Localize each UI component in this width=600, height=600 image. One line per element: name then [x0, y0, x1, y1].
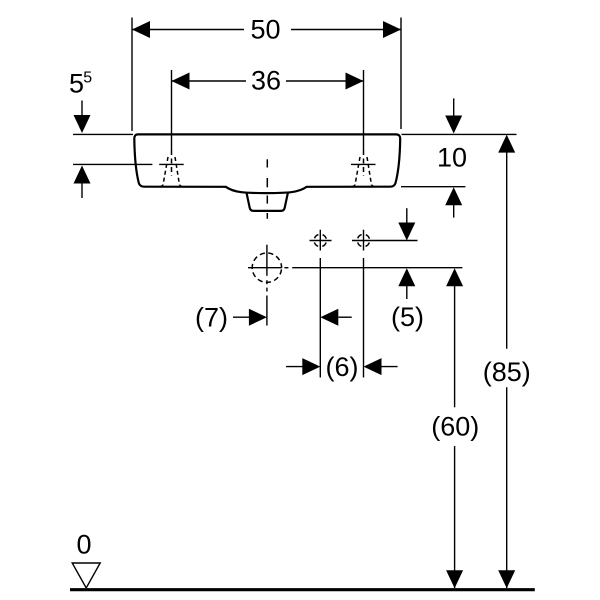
dimension (7) [233, 309, 352, 326]
tap hole right [350, 150, 378, 187]
svg-text:(7): (7) [195, 303, 228, 333]
svg-text:5: 5 [83, 70, 92, 87]
dimension 5.5 [74, 101, 91, 199]
dimension (6) [286, 358, 398, 375]
fixing hole left [310, 230, 332, 378]
svg-text:10: 10 [437, 143, 467, 173]
rim top reference line [73, 133, 133, 135]
dimension (60) [446, 268, 463, 588]
svg-text:(6): (6) [326, 352, 359, 382]
dimension 36 [172, 70, 364, 150]
siphon hole circle [252, 253, 281, 282]
dimension 10 [445, 98, 462, 217]
svg-text:50: 50 [250, 15, 280, 45]
svg-text:36: 36 [251, 66, 281, 96]
siphon horizontal centerline extended [248, 267, 282, 269]
dimension (5) [398, 208, 415, 299]
dimension (85) [498, 135, 515, 589]
drain centerline [266, 159, 268, 219]
siphon vertical centerline [266, 245, 268, 276]
svg-text:(60): (60) [431, 412, 479, 442]
svg-text:5: 5 [69, 69, 84, 99]
floor line [70, 588, 535, 591]
svg-text:0: 0 [76, 530, 91, 560]
rim bottom reference line [401, 186, 465, 188]
washbasin outline [134, 134, 400, 193]
datum triangle [72, 563, 100, 588]
faucet deck line [73, 163, 376, 165]
drain spigot [247, 193, 288, 211]
fixing hole right [352, 230, 418, 378]
svg-text:(85): (85) [483, 357, 531, 387]
dimension 50 [132, 18, 401, 132]
svg-text:(5): (5) [391, 302, 424, 332]
tap hole left [158, 150, 186, 187]
